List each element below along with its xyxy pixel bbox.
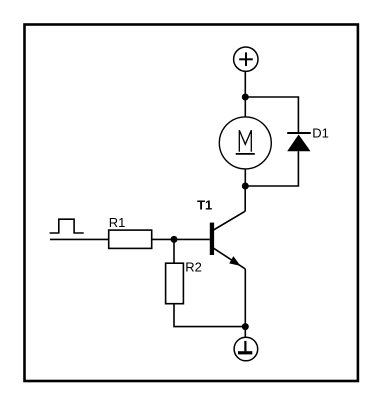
node ground junction xyxy=(242,323,249,330)
wire diode anode to motor-collector junction xyxy=(245,151,298,186)
wire R2 bottom to ground node xyxy=(174,304,245,327)
wire supply node to diode cathode xyxy=(245,97,298,132)
wire motor bottom to junction xyxy=(244,169,246,186)
node motor-collector junction xyxy=(242,183,249,190)
svg-text:T1: T1 xyxy=(197,197,212,212)
wire base node down to R2 xyxy=(173,239,175,263)
pulse input symbol xyxy=(50,219,84,233)
motor M xyxy=(219,117,271,169)
wire base node to transistor base xyxy=(174,238,210,240)
node supply junction xyxy=(242,94,249,101)
wire supply terminal to supply node xyxy=(244,71,246,97)
wire emitter down to ground node xyxy=(244,269,246,327)
ground xyxy=(234,337,258,361)
svg-text:R1: R1 xyxy=(109,215,126,230)
wire motor top to supply node xyxy=(244,97,246,117)
resistor R2 xyxy=(166,263,184,304)
transistor T1 xyxy=(210,211,246,269)
svg-text:R2: R2 xyxy=(185,260,202,275)
svg-text:D1: D1 xyxy=(312,125,329,140)
wire R1 to base node xyxy=(152,238,174,240)
resistor R1 xyxy=(109,230,152,248)
wire collector up to motor node xyxy=(244,186,246,211)
power supply + terminal xyxy=(234,47,258,71)
wire input to R1 xyxy=(50,238,109,240)
node base junction xyxy=(171,236,178,243)
diode D1 xyxy=(287,133,311,151)
wire ground node to earth symbol xyxy=(244,327,246,338)
